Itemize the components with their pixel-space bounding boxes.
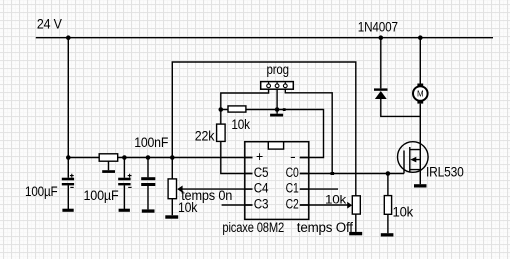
- svg-text:C0: C0: [286, 165, 299, 180]
- svg-text:C1: C1: [286, 181, 299, 196]
- svg-text:C4: C4: [254, 181, 269, 196]
- svg-text:100nF: 100nF: [134, 135, 168, 150]
- svg-text:100µF: 100µF: [84, 188, 119, 203]
- svg-text:C3: C3: [254, 196, 269, 211]
- svg-text:IRL530: IRL530: [426, 164, 464, 179]
- svg-text:temps Off: temps Off: [297, 220, 353, 235]
- svg-text:1N4007: 1N4007: [358, 20, 398, 35]
- svg-text:10k: 10k: [231, 117, 250, 132]
- svg-text:24 V: 24 V: [37, 16, 62, 31]
- svg-text:+: +: [256, 149, 263, 164]
- svg-text:10k: 10k: [393, 205, 414, 220]
- svg-text:100µF: 100µF: [25, 184, 58, 199]
- svg-text:picaxe 08M2: picaxe 08M2: [222, 220, 284, 235]
- svg-text:C2: C2: [286, 196, 299, 211]
- svg-text:22k: 22k: [195, 128, 215, 143]
- svg-text:10k: 10k: [178, 200, 198, 215]
- svg-text:10k: 10k: [325, 192, 347, 206]
- svg-text:M: M: [417, 89, 424, 98]
- svg-text:prog: prog: [267, 62, 289, 77]
- svg-text:C5: C5: [254, 165, 269, 180]
- svg-text:-: -: [290, 149, 296, 164]
